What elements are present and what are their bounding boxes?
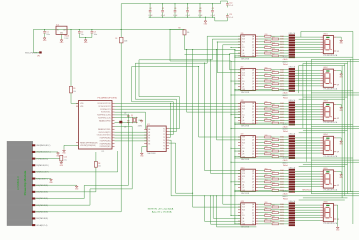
- wire cascade gap2 line 4: [303, 96, 348, 98]
- svg-text:74HC595N: 74HC595N: [241, 126, 250, 128]
- wire display5 common to ground: [336, 171, 341, 173]
- wire DIS6 segment G: [295, 219, 320, 221]
- svg-text:LED2: LED2: [323, 67, 327, 69]
- wire display6 common to ground: [336, 204, 337, 206]
- wire MCU OSC2: [115, 121, 138, 123]
- wire DIS1 segment D: [295, 44, 320, 46]
- svg-text:IC1: IC1: [102, 151, 105, 153]
- decoder left pin 1: [144, 128, 147, 130]
- wire decoder Y5 branch: [169, 142, 176, 144]
- MCU right pin 3: [112, 108, 115, 110]
- wire DIS3 segment F: [295, 116, 320, 118]
- wire LCD riser2: [115, 125, 133, 127]
- wire cascade gap4 line 2: [311, 159, 359, 161]
- node pad on +5V line: [119, 121, 122, 124]
- svg-text:R1: R1: [73, 88, 75, 90]
- display LED4 seven segment: [323, 136, 333, 154]
- SR2 left pin 5: [238, 80, 241, 82]
- wire cascade gap4 line 3: [231, 161, 359, 163]
- resistor R27 segment DP: [258, 88, 272, 90]
- LCD pin 8: [32, 191, 35, 193]
- resistor R46 segment G: [258, 153, 264, 155]
- capacitor C7 bypass: [187, 3, 188, 4]
- ground display3: [340, 107, 342, 108]
- resistor R3 pullup SRCLR: [170, 29, 185, 31]
- wire bus vertical x186: [186, 49, 187, 50]
- capacitor C1 input cap: [44, 30, 46, 32]
- decoder right pin 3: [166, 133, 169, 135]
- wire DIS4 segment E: [295, 147, 320, 149]
- SR3 right pin QF: [256, 116, 259, 118]
- SR4 right pin QF: [256, 150, 259, 152]
- wire cascade gap4 line 1: [235, 157, 353, 159]
- wire DIS1 segment B: [295, 39, 320, 41]
- SR6 right pin QF: [256, 217, 259, 219]
- wire DIS5 segment G: [295, 186, 320, 188]
- wire SR1 input 1: [207, 35, 241, 37]
- ground display4: [340, 140, 342, 141]
- ground below regulator: [61, 39, 63, 40]
- wire SR1 input 7: [230, 53, 241, 55]
- wire cascade gap3 line 5: [299, 132, 345, 134]
- MCU right pin 14: [112, 140, 115, 142]
- svg-text:C8: C8: [199, 8, 201, 10]
- wire DIS6 segment D: [295, 212, 320, 214]
- svg-text:IC5: IC5: [56, 24, 59, 26]
- wire DIS5 segment F: [295, 183, 320, 185]
- MCU left pin VSS2: [76, 144, 79, 146]
- wire SR5 power stub 2: [234, 184, 235, 185]
- wire SR4 power stub 2: [234, 151, 235, 152]
- resistor R14 segment E: [258, 46, 264, 48]
- wire SR6 staircase 2: [210, 195, 211, 196]
- svg-text:78L05: 78L05: [64, 36, 69, 38]
- decoder IC2 74HC138: [147, 126, 166, 152]
- svg-text:IC10: IC10: [241, 167, 245, 169]
- wire DIS4 segment B: [295, 139, 320, 141]
- SR4 right pin QG: [256, 153, 259, 155]
- voltage regulator IC5 78L05: [56, 26, 67, 34]
- ground below C2 C3: [85, 39, 87, 40]
- resistor R13 segment D: [258, 44, 272, 46]
- wire DIS3 segment C: [295, 108, 320, 110]
- SR5 right pin QD: [256, 178, 259, 180]
- wire +5V riser to cap rail: [120, 4, 122, 30]
- wire DIS6 segment B: [295, 207, 320, 209]
- wire DIS6 segment C: [295, 209, 320, 211]
- LCD pin 2: [32, 151, 35, 153]
- wire bus vertical x216: [216, 49, 217, 50]
- SR6 left pin 3: [238, 209, 241, 211]
- resistor R21 segment B: [258, 72, 272, 74]
- wire cascade gap5 line 4: [303, 197, 348, 199]
- wire cascade top loop: [301, 30, 353, 32]
- capacitor C3: [91, 29, 92, 30]
- wire cascade gap5 line 5: [299, 199, 345, 201]
- SR4 left pin 7: [238, 153, 241, 155]
- SR4 right pin QA: [256, 136, 259, 138]
- wire DIS6 segment E: [295, 214, 320, 216]
- wire bus vertical x207: [206, 36, 208, 63]
- wire SR6 input 1: [223, 203, 241, 205]
- svg-text:C2: C2: [81, 31, 83, 33]
- LCD pin 10: [32, 204, 35, 206]
- SR6 right pin QE: [256, 214, 259, 216]
- SR5 right pin QDP: [256, 189, 259, 191]
- SR2 right pin QD: [256, 77, 259, 79]
- wire DIS4 segment G: [295, 152, 320, 154]
- SR4 left pin 2: [238, 139, 241, 141]
- SR4 left pin 5: [238, 147, 241, 149]
- SR4 right pin QD: [256, 144, 259, 146]
- resistor R57 segment DP: [258, 189, 272, 191]
- ground below C1: [44, 37, 46, 38]
- decoder left pin 2: [144, 131, 147, 133]
- SR4 left pin 8: [238, 156, 241, 158]
- wire DIS1 segment C: [295, 41, 320, 43]
- wire mesh horizontal y96: [139, 96, 180, 98]
- svg-text:JP1: JP1: [37, 56, 40, 58]
- wire SR5 power stub 1: [230, 181, 231, 182]
- resistor R43 segment D: [258, 144, 272, 146]
- resistor R51 segment B: [258, 172, 272, 174]
- svg-text:LED6: LED6: [323, 201, 327, 203]
- ground decoder: [141, 152, 143, 153]
- decoder right pin 5: [166, 139, 169, 141]
- wire DIS3 segment E: [295, 113, 320, 115]
- wire SR6 staircase 1: [204, 195, 205, 196]
- wire mesh horizontal y99: [135, 98, 176, 100]
- decoder left pin 5: [144, 140, 147, 142]
- resistor R37 segment DP: [258, 122, 272, 124]
- svg-text:Powertip Module: Powertip Module: [23, 170, 27, 195]
- decoder right pin 7: [166, 145, 169, 147]
- SR6 right pin QDP: [256, 223, 259, 225]
- SR2 right pin QB: [256, 72, 259, 74]
- wire cascade right vertical 3: [347, 61, 349, 193]
- wire LCD DB6 net: [35, 204, 90, 206]
- svg-text:74HC595N: 74HC595N: [241, 58, 250, 60]
- SR1 right pin QB: [256, 38, 259, 40]
- wire power input to rail: [33, 51, 39, 53]
- wire decoder Y4 to SR6: [169, 139, 171, 141]
- LCD module LCD1: [7, 141, 33, 225]
- resistor R10 segment A: [258, 35, 264, 37]
- SR1 right pin QC: [256, 41, 259, 43]
- wire top +5V cap rail: [121, 3, 220, 5]
- wire DIS6 segment F: [295, 217, 320, 219]
- wire SR2 input 1: [230, 69, 241, 71]
- wire LCD RW to ground: [35, 178, 51, 180]
- wire SR4 input 1: [199, 136, 241, 138]
- wire net wire3: [115, 108, 241, 110]
- wire DIS5 segment E: [295, 181, 320, 183]
- resistor R55 segment F: [258, 184, 272, 186]
- resistor R36 segment G: [258, 119, 264, 121]
- resistor R54 segment E: [258, 181, 264, 183]
- SR1 left pin 3: [238, 41, 241, 43]
- wire bottom rail right step: [214, 17, 216, 21]
- svg-text:C4: C4: [149, 8, 151, 10]
- wire cascade gap1 line 5: [299, 65, 345, 67]
- SR6 left pin 2: [238, 206, 241, 208]
- wire cascade left vertical 4: [298, 66, 300, 94]
- SR6 left pin 6: [238, 217, 241, 219]
- shift register IC11 74HC595 stage 6: [241, 203, 256, 225]
- wire SR1 power stub 3: [234, 55, 235, 56]
- wire DIS5 segment B: [295, 173, 320, 175]
- svg-text:IC2: IC2: [147, 124, 150, 126]
- decoder right pin 6: [166, 142, 169, 144]
- SR3 left pin 4: [238, 111, 241, 113]
- wire display2 common to ground: [336, 70, 341, 72]
- resistor R56 segment G: [258, 186, 264, 188]
- SR1 left pin 8: [238, 55, 241, 57]
- wire LCD DB4 riser: [35, 191, 96, 193]
- wire DIS4 segment F: [295, 150, 320, 152]
- wire latch net: [185, 54, 230, 56]
- resistor R40 segment A: [258, 136, 264, 138]
- wire DIS2 segment B: [295, 72, 320, 74]
- resistor R17 segment DP: [258, 55, 272, 57]
- SR6 left pin 7: [238, 220, 241, 222]
- SR5 left pin 8: [238, 189, 241, 191]
- SR2 left pin 6: [238, 83, 241, 85]
- display LED6 seven segment: [323, 204, 333, 222]
- shift register IC7 74HC595 stage 2: [241, 68, 256, 90]
- resistor R63 segment D: [258, 212, 272, 214]
- wire mesh horizontal y59: [139, 59, 212, 61]
- resistor R32 segment C: [258, 108, 264, 110]
- wire DIS2 segment D: [295, 77, 320, 79]
- wire DIS5 segment A: [295, 171, 320, 173]
- MCU right pin 15: [112, 143, 115, 145]
- resistor R11 segment B: [258, 38, 272, 40]
- wire MCU VSS to ground: [64, 144, 79, 146]
- wire DIS1 segment A: [295, 36, 320, 38]
- wire R1 to MCU VDD: [70, 93, 72, 104]
- resistor R62 segment C: [258, 209, 264, 211]
- decoder left pin 6: [144, 143, 147, 145]
- wire cascade gap4 line 5: [299, 165, 345, 167]
- SR4 left pin 4: [238, 144, 241, 146]
- wire MCU OSC1: [115, 117, 138, 119]
- microcontroller IC1 PIC16F887: [79, 101, 113, 150]
- SR4 right pin QE: [256, 147, 259, 149]
- SR6 left pin 1: [238, 203, 241, 205]
- SR1 right pin QE: [256, 46, 259, 48]
- wire display4 common to ground: [336, 137, 341, 139]
- wire SR1 power stub 1: [230, 47, 231, 48]
- SR1 left pin 6: [238, 49, 241, 51]
- svg-text:IC11: IC11: [241, 201, 244, 203]
- wire SR3 power stub 2: [234, 117, 235, 118]
- SR5 left pin 4: [238, 178, 241, 180]
- wire SR3 power stub 1: [230, 114, 231, 115]
- wire rail vertical x231 VCC: [230, 61, 232, 216]
- wire DIS3 segment D: [295, 111, 320, 113]
- shift register IC9 74HC595 stage 4: [241, 136, 256, 158]
- svg-text:C9: C9: [212, 8, 214, 10]
- MCU left pin VDD: [76, 102, 79, 104]
- wire SR6 input 2: [193, 206, 241, 208]
- SR4 left pin 6: [238, 150, 241, 152]
- wire SR2 power stub 1: [230, 81, 231, 82]
- SR2 right pin QF: [256, 83, 259, 85]
- SR6 left pin 4: [238, 212, 241, 214]
- wire cascade gap3 line 1: [235, 123, 353, 125]
- SR3 left pin 8: [238, 122, 241, 124]
- wire DIS1 segment F: [295, 49, 320, 51]
- ground C14: [60, 162, 62, 163]
- SR6 right pin QA: [256, 203, 259, 205]
- MCU right pin 1: [112, 102, 115, 104]
- wire cascade gap2 line 1: [235, 90, 353, 92]
- LCD pin 3: [32, 158, 35, 160]
- decoder right pin 4: [166, 136, 169, 138]
- wire bus vertical x204: [204, 63, 205, 64]
- wire DIS3 segment A: [295, 103, 320, 105]
- svg-text:LED1: LED1: [323, 33, 327, 35]
- svg-text:C1: C1: [46, 31, 48, 33]
- SR2 left pin 1: [238, 69, 241, 71]
- SR2 left pin 4: [238, 77, 241, 79]
- resistor R4 inline: [94, 162, 97, 168]
- wire SR1 input 2: [212, 38, 240, 40]
- wire SR4 input 2: [217, 139, 241, 141]
- SR6 right pin QG: [256, 220, 259, 222]
- wire bottom cap rail: [149, 16, 215, 18]
- SR6 left pin 8: [238, 223, 241, 225]
- ground display2: [340, 73, 342, 74]
- wire DIS1 segment G: [295, 51, 320, 53]
- SR3 right pin QC: [256, 108, 259, 110]
- wire SR5 power stub 3: [234, 190, 235, 191]
- diode D1 inline: [121, 29, 122, 30]
- decoder left pin 3: [144, 134, 147, 136]
- wire MCU to decoder A1: [115, 131, 148, 133]
- wire cascade right vertical 2: [349, 59, 351, 191]
- SR2 right pin QE: [256, 80, 259, 82]
- SR2 left pin 7: [238, 86, 241, 88]
- wire LCD E to ground: [35, 184, 76, 186]
- SR1 right pin QD: [256, 44, 259, 46]
- SR3 left pin 6: [238, 116, 241, 118]
- wire DIS1 segment E: [295, 46, 320, 48]
- resistor R22 segment C: [258, 74, 264, 76]
- SR4 right pin QDP: [256, 156, 259, 158]
- resistor R23 segment D: [258, 77, 272, 79]
- LCD pin 6: [32, 178, 35, 180]
- SR1 left pin 1: [238, 35, 241, 37]
- wire decoder Y3 riser: [169, 136, 171, 138]
- shift register IC10 74HC595 stage 5: [241, 169, 256, 191]
- MCU right pin 4: [112, 111, 115, 113]
- wire DIS5 segment C: [295, 176, 320, 178]
- SR5 right pin QB: [256, 172, 259, 174]
- wire SR3 input 4: [187, 111, 241, 113]
- MCU right pin 2: [112, 105, 115, 107]
- wire +5V junction to SR rail: [169, 29, 170, 30]
- capacitor C9 bypass: [212, 3, 213, 4]
- MCU right pin 6: [112, 117, 115, 119]
- wire display1 common to ground: [336, 36, 341, 38]
- wire cascade gap3 line 2: [311, 126, 359, 128]
- wire DIS4 segment C: [295, 142, 320, 144]
- SR5 left pin 5: [238, 181, 241, 183]
- SR1 right pin QG: [256, 52, 259, 54]
- wire cascade left vertical 1: [310, 59, 312, 193]
- ground LCD VSS: [57, 152, 59, 153]
- svg-text:IC7: IC7: [241, 67, 244, 69]
- wire SR1 input 4: [223, 44, 241, 46]
- wire decoder Y0 riser: [169, 128, 180, 130]
- svg-text:74HC595N: 74HC595N: [241, 92, 250, 94]
- LCD pin 4: [32, 164, 35, 166]
- wire SRCLR net: [184, 35, 186, 50]
- shift register IC8 74HC595 stage 3: [241, 102, 256, 124]
- SR5 right pin QA: [256, 170, 259, 172]
- wire mesh riser x139: [138, 60, 140, 97]
- wire SR2 power stub 3: [234, 89, 235, 90]
- resistor R1 pullup: [70, 86, 73, 93]
- svg-text:C7: C7: [187, 8, 189, 10]
- connector JP1 power input pad: [39, 51, 42, 53]
- MCU right pin 8: [112, 123, 115, 125]
- SR1 left pin 7: [238, 52, 241, 54]
- ground MCU: [63, 149, 65, 150]
- wire DIS4 segment A: [295, 137, 320, 139]
- wire DIS2 segment G: [295, 85, 320, 87]
- wire bus vertical x212: [211, 39, 213, 60]
- LCD pin 7: [32, 184, 35, 186]
- wire rail vertical x234 clock: [234, 50, 236, 225]
- resistor R64 segment E: [258, 214, 264, 216]
- resistor R53 segment D: [258, 178, 272, 180]
- wire cascade gap2 line 3: [231, 94, 359, 96]
- MCU left pin MCLR: [76, 142, 79, 144]
- LCD pin 11: [32, 211, 35, 213]
- svg-text:74HC595N: 74HC595N: [241, 193, 250, 195]
- wire bus vertical x229: [229, 54, 230, 55]
- resistor R47 segment DP: [258, 156, 272, 158]
- MCU right pin 12: [112, 134, 115, 136]
- MCU right pin 7: [112, 120, 115, 122]
- wire SR6 power stub 1: [230, 215, 231, 216]
- LCD pin 5: [32, 171, 35, 173]
- MCU right pin 16: [112, 145, 115, 147]
- wire cascade gap1 line 1: [235, 56, 353, 58]
- wire LCD backlight net: [35, 211, 121, 213]
- resistor R41 segment B: [258, 139, 272, 141]
- wire DIS2 segment F: [295, 82, 320, 84]
- resistor R15 segment F: [258, 49, 272, 51]
- wire DIS2 segment A: [295, 70, 320, 72]
- MCU right pin 13: [112, 137, 115, 139]
- wire SR5 input 1: [205, 170, 241, 172]
- wire mesh riser x135: [134, 63, 136, 99]
- wire crystal ground: [139, 119, 142, 121]
- LCD pin 9: [32, 198, 35, 200]
- SR1 right pin QF: [256, 49, 259, 51]
- SR1 left pin 2: [238, 38, 241, 40]
- wire cascade gap1 line 2: [311, 58, 359, 60]
- node no-connect mark: [292, 191, 294, 193]
- SR6 right pin QC: [256, 209, 259, 211]
- wire MCU to decoder E2: [115, 140, 148, 142]
- resistor R31 segment B: [258, 105, 272, 107]
- decoder left pin 4: [144, 137, 147, 139]
